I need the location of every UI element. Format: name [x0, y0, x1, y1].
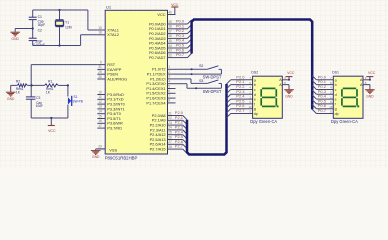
ground GND (oscillator) — [10, 29, 32, 41]
svg-text:P0.7/AD7: P0.7/AD7 — [149, 55, 166, 60]
resistor R2 1K — [16, 79, 27, 94]
svg-text:S3: S3 — [199, 79, 203, 83]
svg-text:DS2: DS2 — [251, 71, 258, 75]
bus P2 (MCU to DS2) — [187, 84, 227, 155]
svg-text:P0.7: P0.7 — [318, 108, 327, 113]
svg-text:Dpy Green-CA: Dpy Green-CA — [331, 119, 358, 124]
node junction crystal bottom — [58, 44, 60, 46]
svg-text:8: 8 — [168, 99, 170, 103]
svg-text:40: 40 — [168, 10, 172, 14]
svg-text:35: 35 — [168, 39, 172, 43]
svg-text:R2: R2 — [16, 79, 20, 83]
power VCC (reset) — [48, 118, 56, 133]
svg-text:3: 3 — [168, 75, 170, 79]
svg-text:9: 9 — [100, 60, 102, 64]
svg-text:VCC: VCC — [287, 71, 295, 75]
wires P2.0-P2.7 with net labels — [175, 110, 187, 153]
ground GND (reset divider) — [6, 85, 17, 100]
svg-text:29: 29 — [98, 70, 102, 74]
svg-text:VCC: VCC — [48, 129, 56, 133]
wire XTAL2 net (bottom) — [33, 35, 98, 46]
node junction crystal top — [58, 9, 60, 11]
svg-text:P3.7/RD: P3.7/RD — [107, 125, 122, 130]
svg-text:SW-PB: SW-PB — [73, 100, 83, 104]
svg-text:26: 26 — [168, 135, 172, 139]
IC U1 P89C51 microcontroller body — [105, 5, 168, 161]
svg-text:e: e — [335, 98, 337, 102]
power VCC (pin 40) — [171, 3, 179, 15]
svg-text:1: 1 — [168, 65, 170, 69]
IC U1 right pins with numbers and names — [146, 10, 175, 151]
power VCC (DS2 common anode) — [286, 71, 295, 80]
svg-text:VCC: VCC — [157, 12, 165, 17]
svg-text:GND: GND — [12, 37, 20, 41]
svg-text:P2.7/A15: P2.7/A15 — [150, 146, 166, 151]
svg-text:22: 22 — [168, 116, 172, 120]
svg-text:f: f — [335, 102, 336, 106]
ground GND (DS2) — [284, 85, 294, 99]
ground GND (DS1) — [365, 85, 375, 99]
svg-text:P1.7/CEX4: P1.7/CEX4 — [146, 100, 166, 105]
svg-text:GND: GND — [285, 94, 293, 98]
svg-text:10: 10 — [98, 90, 102, 94]
capacitor C2 30pF — [29, 28, 45, 46]
svg-text:20: 20 — [98, 145, 102, 149]
wires P0.0-P0.7 with net labels — [176, 19, 192, 58]
svg-text:10: 10 — [329, 105, 333, 109]
power VCC (DS1 common anode) — [366, 71, 375, 80]
svg-text:dp: dp — [335, 112, 339, 116]
svg-text:7: 7 — [168, 94, 170, 98]
svg-text:S1: S1 — [74, 95, 78, 99]
svg-text:10: 10 — [249, 105, 253, 109]
svg-text:6: 6 — [168, 89, 170, 93]
wire P1.0 to S2 pole 1 — [176, 68, 208, 70]
svg-text:GND: GND — [366, 94, 374, 98]
resistor R1 1K — [44, 79, 58, 94]
svg-text:37: 37 — [168, 29, 172, 33]
svg-text:P0.7: P0.7 — [176, 52, 185, 57]
pin name VSS (pin 20) — [109, 148, 117, 153]
svg-text:23: 23 — [168, 121, 172, 125]
svg-text:dp: dp — [254, 112, 258, 116]
wire reset bottom rail — [31, 117, 68, 119]
svg-text:VSS: VSS — [109, 148, 117, 153]
wire P1.3 to S3 pole 2 — [176, 84, 222, 89]
capacitor C1 30pF — [29, 10, 45, 38]
svg-text:f: f — [254, 102, 255, 106]
svg-text:30pF: 30pF — [38, 23, 46, 27]
svg-text:DS1: DS1 — [332, 71, 339, 75]
svg-text:33: 33 — [168, 49, 172, 53]
svg-text:g: g — [254, 107, 256, 111]
svg-text:C2: C2 — [38, 28, 42, 32]
svg-text:d: d — [254, 93, 256, 97]
svg-text:P2.7: P2.7 — [236, 108, 245, 113]
switch S2 SW-DPST — [191, 64, 222, 80]
bus P0 (MCU to DS1) — [192, 20, 313, 110]
svg-text:SW-DPST: SW-DPST — [203, 74, 222, 79]
svg-text:28: 28 — [168, 145, 172, 149]
svg-text:14: 14 — [98, 110, 102, 114]
svg-text:P89C51RB2HBP: P89C51RB2HBP — [105, 156, 138, 161]
switch S1 SW-PB pushbutton — [68, 95, 83, 118]
ground GND (VSS pin 20) — [91, 149, 105, 159]
svg-text:Y1: Y1 — [65, 21, 69, 25]
wires P0 nets to DS1 with labels — [312, 74, 333, 113]
display DS2 Dpy Green-CA 7-segment — [249, 71, 289, 125]
switch S3 SW-DPST — [195, 79, 222, 94]
svg-text:XTAL2: XTAL2 — [107, 32, 119, 37]
svg-text:a: a — [335, 78, 337, 82]
svg-text:4: 4 — [168, 80, 170, 84]
svg-text:36: 36 — [168, 34, 172, 38]
wire P1.2 to S3 pole 1 — [176, 79, 208, 84]
svg-text:ALE/PROG: ALE/PROG — [107, 76, 127, 81]
svg-text:13: 13 — [98, 105, 102, 109]
svg-text:32: 32 — [168, 53, 172, 57]
node junction R1/S1 — [67, 84, 69, 86]
svg-text:Dpy Green-CA: Dpy Green-CA — [250, 119, 277, 124]
capacitor C3 10uF — [26, 96, 43, 118]
svg-text:U1: U1 — [106, 5, 112, 10]
svg-text:d: d — [335, 93, 337, 97]
svg-text:27: 27 — [168, 140, 172, 144]
svg-text:2: 2 — [168, 70, 170, 74]
svg-text:10uF: 10uF — [36, 104, 43, 108]
wire RST net — [31, 65, 97, 97]
node junction anode/VCC — [288, 79, 290, 81]
wire R1 to S1 — [58, 85, 68, 96]
svg-text:30: 30 — [98, 75, 102, 79]
wire R2 to R1 — [27, 84, 44, 86]
svg-text:a: a — [254, 78, 256, 82]
svg-text:12: 12 — [98, 100, 102, 104]
crystal Y1 12M — [56, 10, 72, 46]
IC U1 left pins with numbers and names — [97, 26, 127, 149]
svg-text:b: b — [335, 83, 337, 87]
svg-text:18: 18 — [98, 31, 102, 35]
svg-text:38: 38 — [168, 25, 172, 29]
node junction RST/C3 — [31, 84, 33, 86]
svg-text:16: 16 — [98, 119, 102, 123]
svg-text:VCC: VCC — [368, 71, 376, 75]
svg-text:e: e — [254, 98, 256, 102]
svg-text:39: 39 — [168, 20, 172, 24]
svg-text:b: b — [254, 83, 256, 87]
svg-text:P2.7: P2.7 — [175, 144, 184, 149]
svg-text:12M: 12M — [65, 26, 72, 30]
svg-text:31: 31 — [98, 65, 102, 69]
svg-text:17: 17 — [98, 124, 102, 128]
wire P1.1 to S2 pole 2 — [176, 73, 222, 75]
node junction anode/VCC — [369, 79, 371, 81]
node junction VCC tap — [50, 117, 52, 119]
svg-text:34: 34 — [168, 44, 172, 48]
svg-text:S2: S2 — [199, 64, 203, 68]
svg-text:15: 15 — [98, 114, 102, 118]
node junction C1/C2/GND — [32, 27, 34, 29]
svg-text:5: 5 — [168, 84, 170, 88]
svg-text:c: c — [335, 88, 337, 92]
svg-text:21: 21 — [168, 111, 172, 115]
wires P2 nets to DS2 with labels — [227, 74, 253, 117]
svg-text:g: g — [335, 107, 337, 111]
svg-text:GND: GND — [7, 97, 15, 101]
svg-text:R1: R1 — [48, 79, 52, 83]
svg-text:GND: GND — [92, 155, 100, 159]
svg-text:c: c — [254, 88, 256, 92]
svg-text:VCC: VCC — [171, 3, 179, 7]
wire XTAL1 net (top) — [33, 10, 98, 30]
svg-text:19: 19 — [98, 26, 102, 30]
svg-text:SW-DPST: SW-DPST — [203, 89, 222, 94]
svg-text:C3: C3 — [36, 96, 40, 100]
display DS1 Dpy Green-CA 7-segment — [329, 71, 370, 125]
svg-text:24: 24 — [168, 126, 172, 130]
svg-text:11: 11 — [98, 95, 102, 99]
svg-text:25: 25 — [168, 131, 172, 135]
